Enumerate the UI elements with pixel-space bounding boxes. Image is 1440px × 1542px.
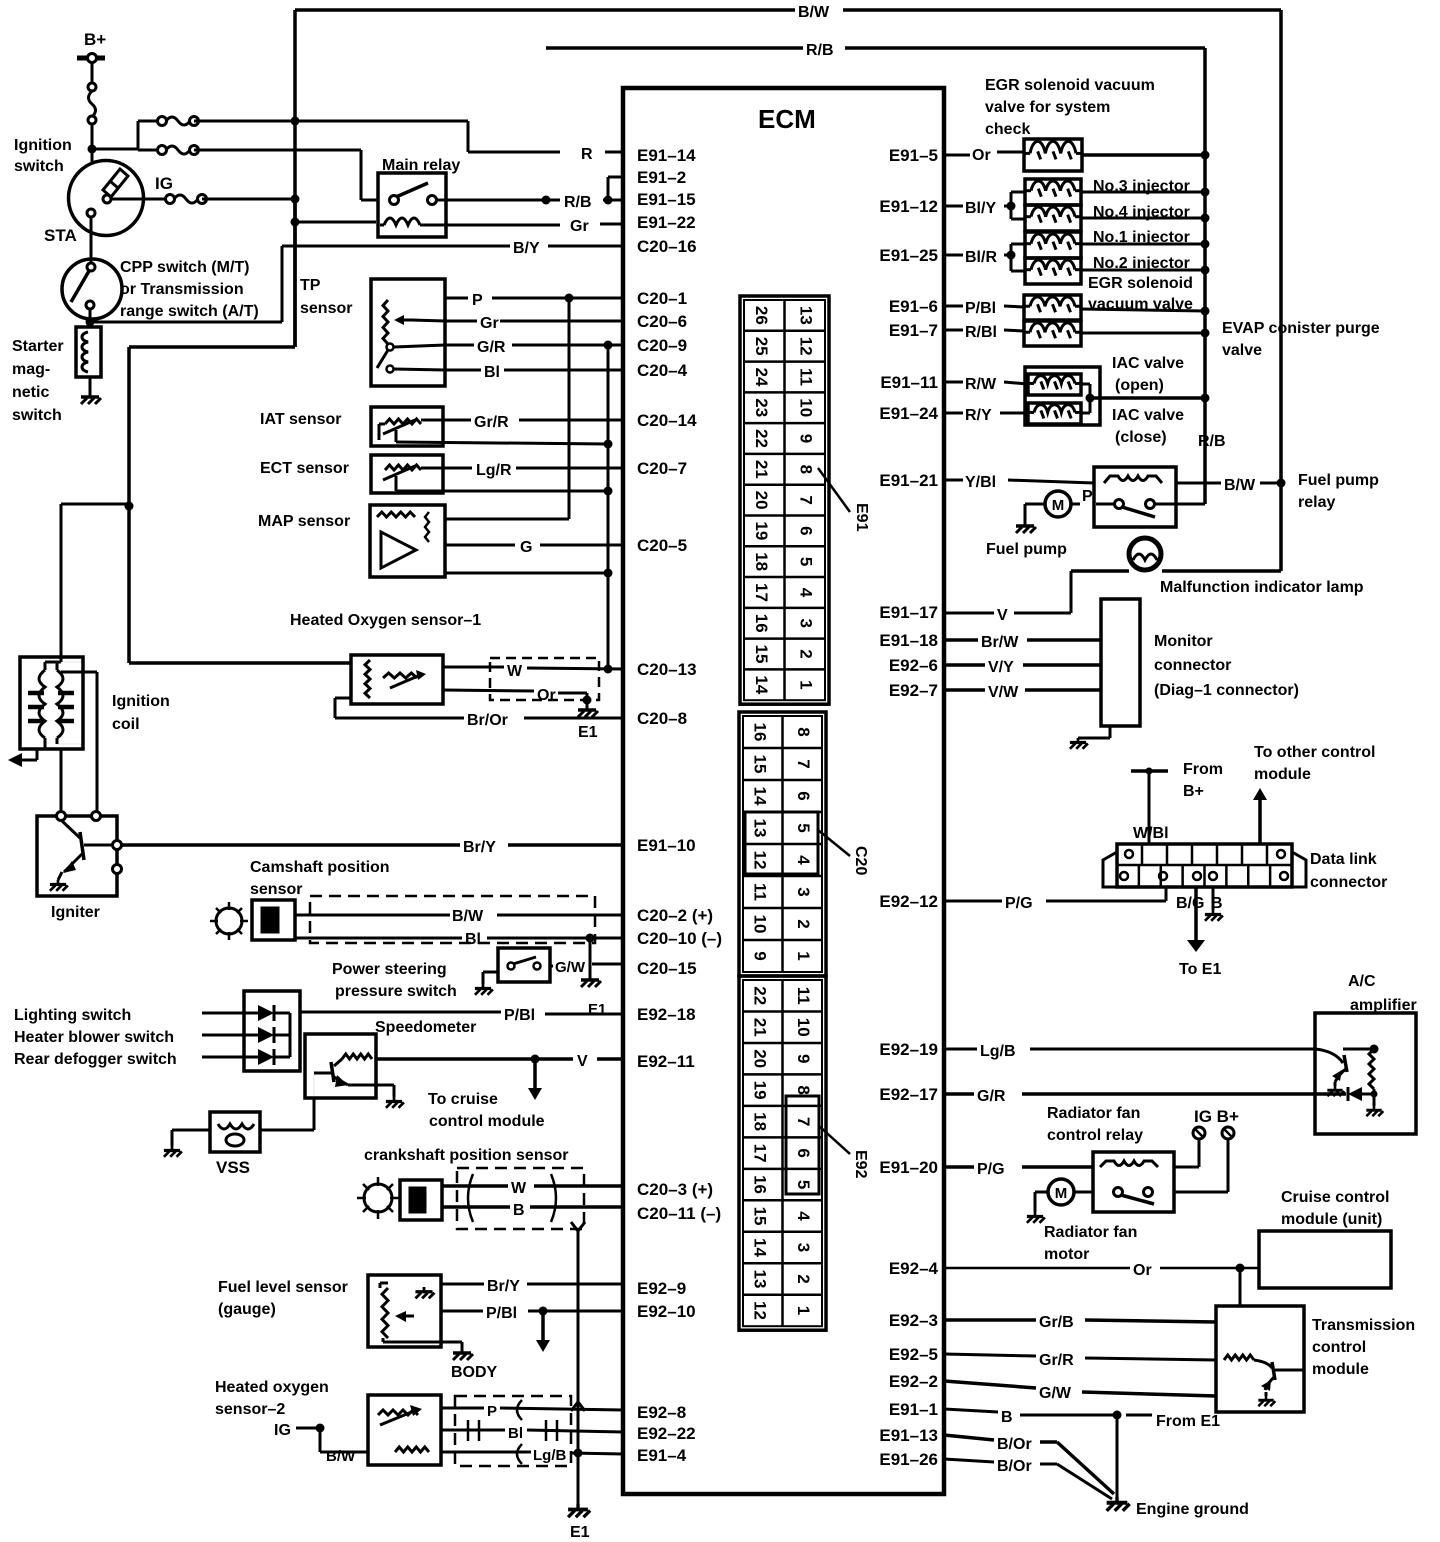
svg-text:14: 14 bbox=[752, 675, 771, 694]
wire P/G from E92-12 bbox=[944, 887, 1166, 912]
svg-text:Or: Or bbox=[1133, 1262, 1152, 1279]
svg-text:E92–2: E92–2 bbox=[889, 1372, 938, 1391]
wire Gr/R to C20-14 bbox=[421, 414, 623, 431]
wire R/Y from E91-24 bbox=[944, 407, 1028, 424]
svg-text:P/G: P/G bbox=[1005, 895, 1033, 912]
wire V from E91-17 to MIL bbox=[944, 571, 1129, 624]
svg-text:18: 18 bbox=[752, 552, 771, 571]
svg-text:C20–11 (–): C20–11 (–) bbox=[637, 1204, 721, 1223]
svg-text:12: 12 bbox=[796, 337, 815, 356]
wire to ignition switch bbox=[88, 124, 97, 163]
svg-text:E91–25: E91–25 bbox=[879, 246, 938, 265]
svg-text:E91–18: E91–18 bbox=[879, 631, 938, 650]
svg-text:coil: coil bbox=[112, 716, 140, 733]
svg-text:C20–13: C20–13 bbox=[637, 660, 697, 679]
svg-text:15: 15 bbox=[750, 755, 769, 774]
svg-text:From E1: From E1 bbox=[1156, 1413, 1220, 1430]
IAT sensor box (thermistor) bbox=[371, 407, 443, 446]
svg-text:Ignition: Ignition bbox=[14, 137, 72, 154]
text IAC valve open bbox=[1112, 355, 1184, 394]
svg-text:16: 16 bbox=[750, 723, 769, 742]
wire heater blower switch bbox=[202, 1034, 244, 1037]
wire B/W right drop bbox=[1279, 10, 1283, 483]
svg-text:ECT sensor: ECT sensor bbox=[260, 460, 349, 477]
fuel pump relay K2 bbox=[1094, 467, 1176, 527]
svg-text:Malfunction indicator lamp: Malfunction indicator lamp bbox=[1160, 579, 1364, 596]
TCM resistor and transistor bbox=[1224, 1355, 1304, 1406]
wire V/Y to monitor bbox=[944, 659, 1101, 676]
wire G/R from E92-17 bbox=[944, 1088, 1346, 1105]
svg-text:E91–10: E91–10 bbox=[637, 836, 696, 855]
fusible link F0 bbox=[88, 83, 96, 124]
svg-text:C20: C20 bbox=[852, 846, 869, 875]
svg-text:22: 22 bbox=[752, 429, 771, 448]
text Fuel pump bbox=[986, 541, 1067, 558]
wire Bl/Y feed bracket bbox=[1004, 192, 1025, 219]
CPP switch SW2 bbox=[62, 259, 122, 319]
svg-text:R/W: R/W bbox=[965, 376, 997, 393]
svg-text:B/G: B/G bbox=[1176, 895, 1204, 912]
svg-text:control module: control module bbox=[429, 1113, 545, 1130]
label Gr bbox=[570, 218, 589, 235]
label IG bbox=[274, 1422, 325, 1439]
wire to ground bbox=[89, 377, 92, 392]
svg-text:E91–21: E91–21 bbox=[879, 471, 938, 490]
A/C amp diode bbox=[1348, 1087, 1378, 1101]
fuel sender ground BODY bbox=[441, 1342, 498, 1381]
svg-text:EVAP conister purge: EVAP conister purge bbox=[1222, 320, 1380, 337]
svg-text:2: 2 bbox=[794, 1274, 813, 1283]
svg-text:4: 4 bbox=[796, 588, 815, 598]
svg-text:Gr: Gr bbox=[570, 218, 589, 235]
svg-text:IAT sensor: IAT sensor bbox=[260, 411, 342, 428]
svg-text:16: 16 bbox=[752, 614, 771, 633]
text Camshaft position sensor bbox=[250, 859, 390, 898]
svg-text:Bl: Bl bbox=[484, 364, 500, 381]
svg-text:4: 4 bbox=[794, 1211, 813, 1221]
starter magnetic switch coil bbox=[76, 327, 101, 377]
svg-text:10: 10 bbox=[794, 1018, 813, 1037]
svg-text:C20–7: C20–7 bbox=[637, 459, 687, 478]
wire E91-2 hook bbox=[608, 177, 623, 200]
svg-text:14: 14 bbox=[750, 787, 769, 806]
svg-text:Fuel pump: Fuel pump bbox=[1298, 472, 1379, 489]
fuse FB (second) bbox=[158, 146, 199, 155]
wire Or from E91-5 bbox=[944, 147, 1024, 164]
svg-text:Br/W: Br/W bbox=[981, 634, 1019, 651]
svg-text:Bl: Bl bbox=[465, 931, 481, 948]
svg-text:valve: valve bbox=[1222, 342, 1262, 359]
text No.3 injector bbox=[1093, 178, 1190, 195]
wire ECT low bbox=[396, 476, 613, 496]
svg-text:24: 24 bbox=[752, 368, 771, 387]
text EGR solenoid vacuum valve for system check bbox=[985, 77, 1155, 138]
A/C amp resistor bbox=[1343, 1045, 1383, 1117]
svg-text:P/G: P/G bbox=[977, 1161, 1005, 1178]
wire heater feed bbox=[125, 502, 352, 664]
svg-text:18: 18 bbox=[750, 1112, 769, 1131]
wire Bl/R feed bracket bbox=[1004, 244, 1025, 271]
svg-text:Transmission: Transmission bbox=[1312, 1317, 1415, 1334]
callout E92 bracket bbox=[786, 1096, 869, 1194]
svg-text:E92–10: E92–10 bbox=[637, 1302, 696, 1321]
svg-text:B/Y: B/Y bbox=[513, 240, 540, 257]
VSS ground bbox=[164, 1130, 210, 1157]
svg-text:crankshaft position sensor: crankshaft position sensor bbox=[364, 1147, 569, 1164]
svg-text:sensor: sensor bbox=[300, 300, 352, 317]
svg-text:Lg/B: Lg/B bbox=[533, 1447, 566, 1464]
wire STA down to CPP switch bbox=[90, 217, 93, 262]
svg-text:or Transmission: or Transmission bbox=[120, 281, 244, 298]
wire G/W from E92-2 bbox=[944, 1381, 1216, 1402]
svg-text:4: 4 bbox=[794, 855, 813, 865]
ignition switch SW1 bbox=[69, 161, 144, 236]
svg-text:5: 5 bbox=[794, 823, 813, 832]
svg-text:Fuel level sensor: Fuel level sensor bbox=[218, 1279, 348, 1296]
svg-text:Gr/R: Gr/R bbox=[474, 414, 509, 431]
svg-text:Heated Oxygen sensor–1: Heated Oxygen sensor–1 bbox=[290, 612, 481, 629]
text VSS bbox=[216, 1158, 250, 1177]
PS pressure switch SW3 bbox=[498, 948, 550, 982]
svg-text:20: 20 bbox=[750, 1049, 769, 1068]
svg-text:Starter: Starter bbox=[12, 338, 64, 355]
svg-text:Bl/Y: Bl/Y bbox=[965, 200, 996, 217]
svg-text:sensor–2: sensor–2 bbox=[215, 1401, 285, 1418]
svg-text:E92–5: E92–5 bbox=[889, 1345, 938, 1364]
wire P to C20-1 bbox=[445, 292, 623, 309]
text MAP sensor bbox=[258, 513, 350, 530]
text To cruise control module bbox=[428, 1091, 545, 1130]
wire R/B right drop bbox=[1203, 48, 1207, 504]
text To E1 bbox=[1179, 961, 1221, 978]
svg-text:C20–14: C20–14 bbox=[637, 411, 697, 430]
wire IG to relay coil bbox=[1174, 1139, 1199, 1167]
svg-text:C20–4: C20–4 bbox=[637, 361, 688, 380]
wire P to E92-8 bbox=[441, 1403, 623, 1420]
text Fuel pump relay bbox=[1298, 472, 1379, 511]
svg-text:2: 2 bbox=[794, 919, 813, 928]
A/C amplifier box bbox=[1315, 1013, 1416, 1134]
svg-text:C20–6: C20–6 bbox=[637, 312, 687, 331]
ECM box U-ECM bbox=[623, 88, 944, 1494]
svg-text:Heated oxygen: Heated oxygen bbox=[215, 1379, 329, 1396]
ground E1 HO2S1 bbox=[578, 693, 598, 741]
wire Bl to E92-22 bbox=[441, 1425, 623, 1442]
wire G/R to C20-9 bbox=[394, 339, 623, 356]
svg-text:1: 1 bbox=[794, 1306, 813, 1315]
wire coil secondary arrow bbox=[8, 749, 37, 767]
svg-text:IAC valve: IAC valve bbox=[1112, 355, 1184, 372]
label Bl/Y bbox=[944, 200, 996, 217]
wire W to C20-13 bbox=[443, 663, 623, 680]
IAC output to bus bbox=[1081, 384, 1210, 413]
svg-text:3: 3 bbox=[794, 1243, 813, 1252]
svg-text:22: 22 bbox=[750, 986, 769, 1005]
svg-text:Data link: Data link bbox=[1310, 851, 1377, 868]
svg-text:19: 19 bbox=[750, 1081, 769, 1100]
svg-text:(close): (close) bbox=[1115, 429, 1167, 446]
text Lighting switch bbox=[14, 1007, 131, 1024]
svg-text:9: 9 bbox=[750, 951, 769, 960]
fuse FA (top) bbox=[158, 117, 199, 126]
svg-text:C20–16: C20–16 bbox=[637, 237, 697, 256]
svg-text:G/W: G/W bbox=[1039, 1385, 1072, 1402]
A/C amp transistor bbox=[1315, 1049, 1347, 1096]
svg-text:E1: E1 bbox=[578, 724, 598, 741]
svg-text:6: 6 bbox=[794, 1148, 813, 1157]
svg-text:13: 13 bbox=[750, 819, 769, 838]
svg-text:A/C: A/C bbox=[1348, 973, 1376, 990]
text EVAP conister purge valve bbox=[1222, 320, 1380, 359]
svg-text:CPP switch (M/T): CPP switch (M/T) bbox=[120, 259, 250, 276]
svg-text:E92–18: E92–18 bbox=[637, 1005, 696, 1024]
svg-text:C20–9: C20–9 bbox=[637, 336, 687, 355]
text Speedometer bbox=[375, 1019, 476, 1036]
fuel pump motor M1 bbox=[1045, 491, 1114, 517]
svg-text:8: 8 bbox=[796, 465, 815, 474]
arrow to cruise control module bbox=[528, 1059, 542, 1100]
svg-text:E91–14: E91–14 bbox=[637, 146, 696, 165]
arrow To E1 bbox=[1187, 887, 1205, 952]
text IAC valve close bbox=[1112, 407, 1184, 446]
text No.1 injector bbox=[1093, 229, 1190, 246]
svg-text:BODY: BODY bbox=[451, 1364, 498, 1381]
text Radiator fan control relay bbox=[1047, 1105, 1143, 1144]
wire Br/Or to C20-8 bbox=[335, 698, 623, 729]
svg-text:To other control: To other control bbox=[1254, 744, 1375, 761]
svg-text:11: 11 bbox=[794, 987, 813, 1005]
svg-text:MAP sensor: MAP sensor bbox=[258, 513, 350, 530]
svg-text:E91–15: E91–15 bbox=[637, 190, 696, 209]
svg-text:Monitor: Monitor bbox=[1154, 633, 1213, 650]
arrow to other control module bbox=[1253, 788, 1267, 844]
wire EVAP to bus bbox=[1081, 329, 1210, 338]
wire to R/B bus bbox=[1082, 151, 1210, 160]
svg-text:C20–15: C20–15 bbox=[637, 959, 697, 978]
svg-text:E91–7: E91–7 bbox=[889, 321, 938, 340]
svg-text:mag-: mag- bbox=[12, 361, 50, 378]
text TP sensor bbox=[300, 277, 352, 317]
text A/C amplifier bbox=[1348, 973, 1417, 1014]
svg-text:Bl/R: Bl/R bbox=[965, 249, 997, 266]
speedometer box bbox=[305, 1034, 394, 1098]
wire Gr/B from E92-3 bbox=[944, 1314, 1216, 1331]
engine ground bbox=[1107, 1497, 1249, 1518]
wire lighting switch bbox=[202, 1012, 244, 1015]
svg-text:(gauge): (gauge) bbox=[218, 1301, 276, 1318]
svg-text:8: 8 bbox=[794, 727, 813, 736]
svg-text:R/B: R/B bbox=[1198, 433, 1226, 450]
wire Gr to C20-6 bbox=[411, 315, 623, 332]
svg-text:M: M bbox=[1055, 1185, 1068, 1202]
svg-text:(open): (open) bbox=[1115, 377, 1164, 394]
svg-text:2: 2 bbox=[796, 649, 815, 658]
ECM left pin labels bbox=[637, 146, 722, 1465]
svg-text:R/Y: R/Y bbox=[965, 407, 992, 424]
arrow stub below P/Bl bbox=[536, 1307, 550, 1353]
svg-text:check: check bbox=[985, 121, 1030, 138]
svg-text:3: 3 bbox=[796, 619, 815, 628]
wire IAT low bbox=[396, 430, 613, 449]
label R/B bbox=[564, 194, 592, 211]
svg-text:B/W: B/W bbox=[452, 908, 484, 925]
wire IG to fuse C bbox=[111, 198, 166, 201]
wire ignition bus down-left bbox=[129, 199, 295, 504]
svg-text:IG B+: IG B+ bbox=[1194, 1107, 1239, 1126]
wire Lg/R to C20-7 bbox=[421, 462, 623, 479]
svg-text:Lg/B: Lg/B bbox=[980, 1043, 1016, 1060]
svg-text:E91–20: E91–20 bbox=[879, 1158, 938, 1177]
HO2S-1 box bbox=[351, 655, 443, 704]
injector coil No.2 bbox=[1025, 258, 1081, 284]
text Heated Oxygen sensor-1 bbox=[290, 612, 481, 629]
svg-text:C20–3 (+): C20–3 (+) bbox=[637, 1180, 713, 1199]
svg-text:Gr/B: Gr/B bbox=[1039, 1314, 1074, 1331]
wire B/W down to MIL bbox=[1162, 483, 1281, 571]
svg-text:Igniter: Igniter bbox=[51, 904, 100, 921]
svg-text:Radiator fan: Radiator fan bbox=[1047, 1105, 1140, 1122]
ECT sensor box (thermistor) bbox=[371, 455, 443, 493]
text Ignition coil bbox=[112, 693, 170, 733]
svg-text:Bl: Bl bbox=[508, 1425, 523, 1442]
svg-text:E91–22: E91–22 bbox=[637, 213, 696, 232]
svg-text:IG: IG bbox=[274, 1422, 291, 1439]
svg-text:E91–11: E91–11 bbox=[880, 373, 938, 392]
wire R/Bl from E91-7 bbox=[944, 324, 1024, 341]
svg-text:Cruise control: Cruise control bbox=[1281, 1189, 1389, 1206]
label Bl/R bbox=[944, 249, 997, 266]
text To other control module bbox=[1254, 744, 1375, 783]
svg-text:EGR solenoid vacuum: EGR solenoid vacuum bbox=[985, 77, 1155, 94]
fuse FC (IG) bbox=[166, 195, 207, 204]
svg-text:EGR solenoid: EGR solenoid bbox=[1088, 275, 1193, 292]
IAC valve box bbox=[1025, 367, 1100, 425]
diode box D1-D3 bbox=[244, 991, 300, 1071]
label B/G B bbox=[1176, 895, 1223, 912]
text IG B+ bbox=[1194, 1107, 1239, 1126]
text Main relay bbox=[382, 157, 460, 174]
svg-text:9: 9 bbox=[794, 1054, 813, 1063]
terminal IG bbox=[1193, 1127, 1205, 1139]
svg-text:E91–12: E91–12 bbox=[879, 197, 938, 216]
svg-text:connector: connector bbox=[1154, 657, 1231, 674]
svg-text:C20–5: C20–5 bbox=[637, 536, 687, 555]
svg-text:R/B: R/B bbox=[564, 194, 592, 211]
svg-text:W/Bl: W/Bl bbox=[1133, 825, 1169, 842]
dashed connector box HO2S2 bbox=[455, 1396, 571, 1466]
svg-text:E91–17: E91–17 bbox=[879, 603, 938, 622]
label R bbox=[581, 146, 593, 163]
svg-text:E91: E91 bbox=[853, 503, 870, 532]
svg-text:E92–19: E92–19 bbox=[879, 1040, 938, 1059]
wire relay coil to ECM Gr bbox=[291, 218, 624, 227]
svg-text:Radiator fan: Radiator fan bbox=[1044, 1224, 1137, 1241]
svg-text:15: 15 bbox=[752, 645, 771, 664]
svg-text:module: module bbox=[1312, 1361, 1369, 1378]
svg-text:P: P bbox=[487, 1403, 497, 1420]
camshaft reluctor wheel bbox=[210, 902, 248, 940]
wire MAP top to P bbox=[445, 298, 569, 519]
wire to fuse B bbox=[138, 149, 158, 152]
svg-text:P/Bl: P/Bl bbox=[504, 1007, 535, 1024]
text Transmission control module bbox=[1312, 1317, 1415, 1378]
connector table E92 bbox=[739, 976, 826, 1330]
svg-text:B: B bbox=[513, 1202, 525, 1219]
svg-text:11: 11 bbox=[750, 883, 769, 901]
svg-text:Camshaft position: Camshaft position bbox=[250, 859, 390, 876]
wire G to C20-5 bbox=[445, 539, 623, 556]
wire Y/Bl from E91-21 bbox=[944, 474, 1094, 491]
svg-text:Br/Or: Br/Or bbox=[467, 712, 508, 729]
wire R/W from E91-11 bbox=[944, 376, 1028, 393]
wire B from E91-1 bbox=[944, 1409, 1122, 1426]
svg-text:E91–24: E91–24 bbox=[879, 404, 938, 423]
dashed shield box crankshaft bbox=[457, 1168, 584, 1229]
speedometer ground bbox=[386, 1085, 404, 1108]
text Monitor connector (Diag-1 connector) bbox=[1154, 633, 1299, 699]
svg-text:G/W: G/W bbox=[555, 959, 586, 976]
svg-text:(Diag–1 connector): (Diag–1 connector) bbox=[1154, 682, 1299, 699]
ground E1 bottom bbox=[568, 1504, 590, 1541]
igniter box Q1 bbox=[37, 812, 122, 897]
wire P/G from E91-20 bbox=[944, 1161, 1093, 1178]
svg-text:R: R bbox=[581, 146, 593, 163]
wire P/Bl to E92-18 bbox=[300, 1007, 623, 1024]
svg-text:E1: E1 bbox=[570, 1524, 590, 1541]
svg-text:E91–4: E91–4 bbox=[637, 1446, 687, 1465]
svg-text:E91–2: E91–2 bbox=[637, 168, 686, 187]
label P bbox=[1082, 488, 1093, 505]
svg-text:connector: connector bbox=[1310, 874, 1387, 891]
text ECT sensor bbox=[260, 460, 349, 477]
svg-text:motor: motor bbox=[1044, 1246, 1089, 1263]
text Power steering pressure switch bbox=[332, 961, 457, 1000]
svg-text:9: 9 bbox=[796, 434, 815, 443]
svg-text:19: 19 bbox=[752, 521, 771, 540]
svg-text:E92–4: E92–4 bbox=[889, 1259, 939, 1278]
svg-text:B/Or: B/Or bbox=[997, 1458, 1032, 1475]
svg-text:E92: E92 bbox=[852, 1150, 869, 1179]
svg-text:Speedometer: Speedometer bbox=[375, 1019, 476, 1036]
radiator fan control relay K3 bbox=[1093, 1152, 1174, 1212]
text Malfunction indicator lamp bbox=[1160, 579, 1364, 596]
svg-text:5: 5 bbox=[796, 557, 815, 566]
text crankshaft position sensor bbox=[364, 1147, 569, 1164]
label STA bbox=[44, 226, 77, 245]
svg-text:STA: STA bbox=[44, 226, 77, 245]
text Igniter bbox=[51, 904, 100, 921]
svg-text:IG: IG bbox=[155, 174, 173, 193]
svg-text:To cruise: To cruise bbox=[428, 1091, 498, 1108]
text Starter magnetic switch bbox=[12, 338, 64, 424]
wire B to ground bbox=[1205, 887, 1223, 921]
sensor ground bus vertical bbox=[607, 345, 610, 669]
svg-text:13: 13 bbox=[750, 1270, 769, 1289]
svg-text:Or: Or bbox=[972, 147, 991, 164]
camshaft sensor pickup bbox=[252, 900, 295, 940]
svg-text:range switch (A/T): range switch (A/T) bbox=[120, 303, 259, 320]
svg-text:pressure switch: pressure switch bbox=[335, 983, 457, 1000]
svg-text:V/W: V/W bbox=[988, 684, 1019, 701]
contact IG bbox=[103, 195, 111, 203]
svg-text:E92–22: E92–22 bbox=[637, 1424, 696, 1443]
svg-text:IAC valve: IAC valve bbox=[1112, 407, 1184, 424]
text Heater blower switch bbox=[14, 1029, 174, 1046]
wire Or from E92-4 bbox=[944, 1262, 1259, 1279]
crankshaft reluctor wheel bbox=[357, 1177, 399, 1219]
wire VSS to speedometer bbox=[260, 1098, 314, 1130]
svg-text:Gr: Gr bbox=[480, 315, 499, 332]
